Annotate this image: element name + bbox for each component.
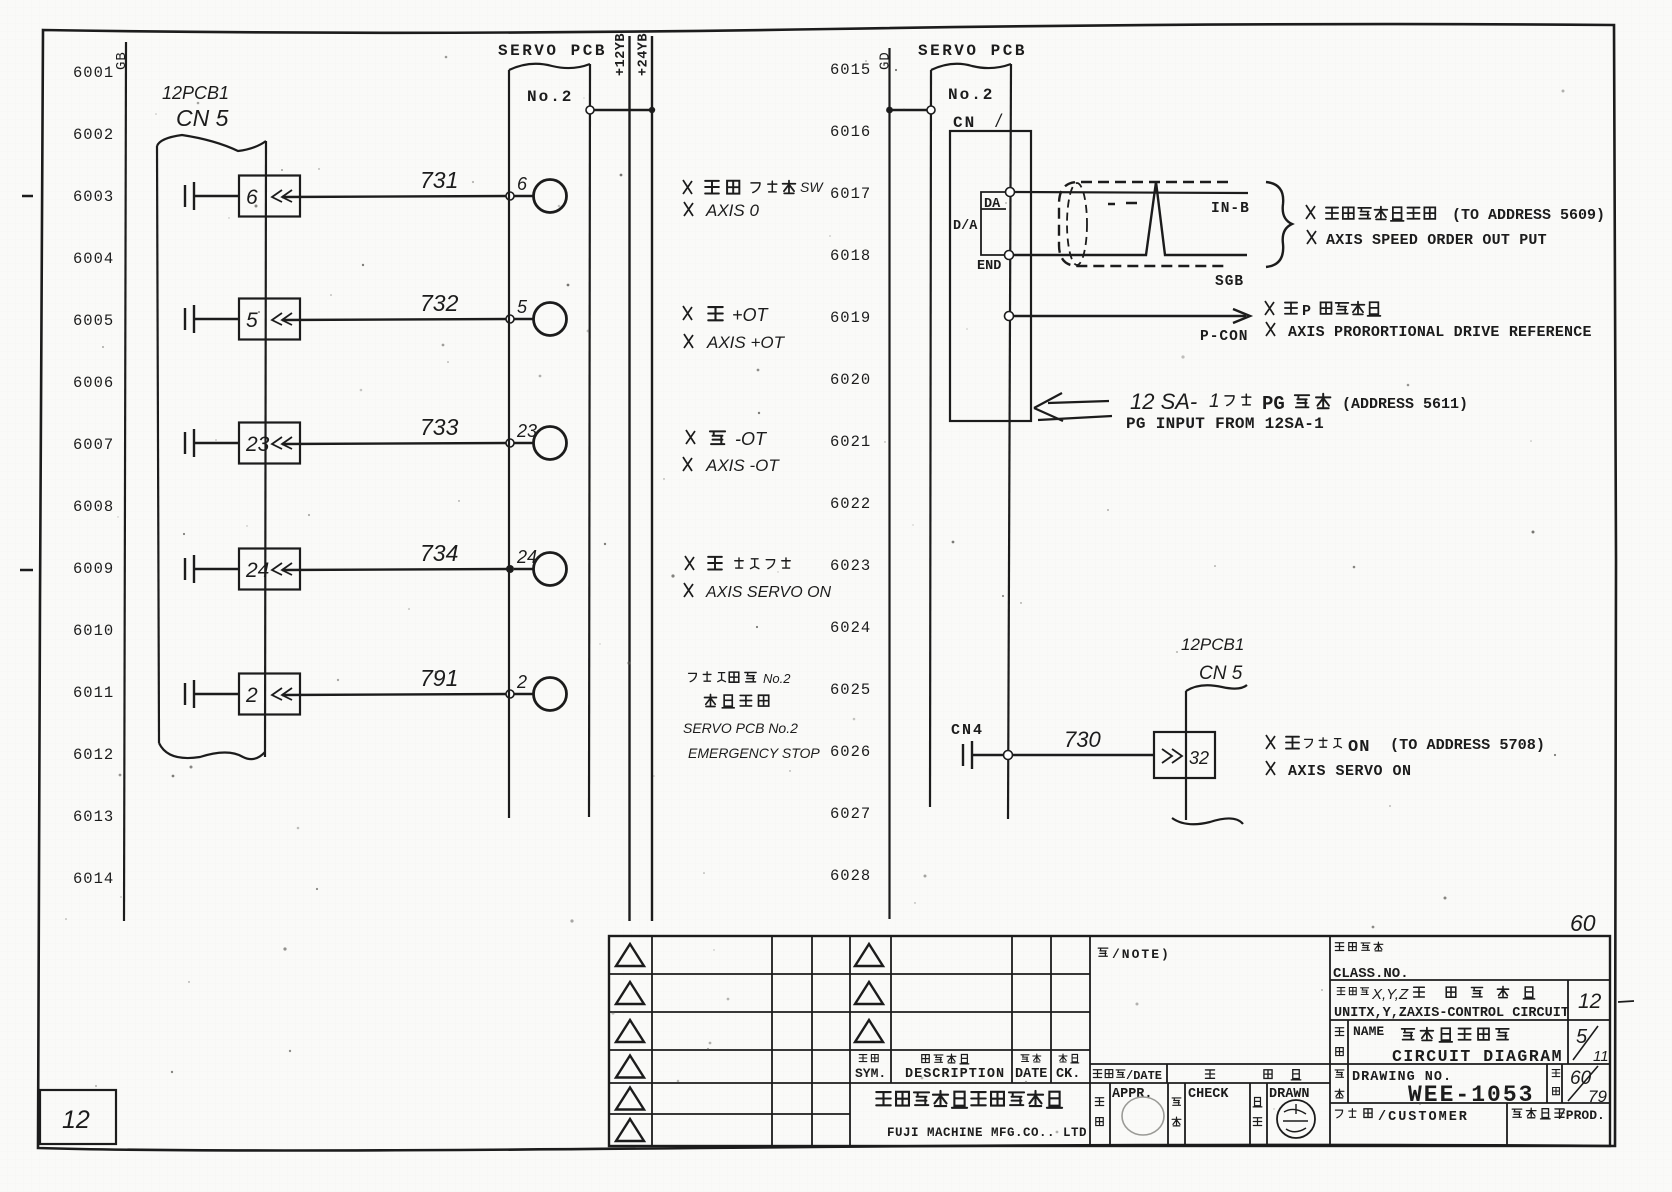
wire pin to lamp circle (514, 195, 534, 197)
svg-text:6026: 6026 (830, 743, 871, 761)
svg-text:/CUSTOMER: /CUSTOMER (1378, 1110, 1469, 1125)
svg-text:11: 11 (1593, 1048, 1609, 1065)
junction at SERVO PCB pin 23 (506, 439, 514, 447)
svg-text:6019: 6019 (830, 309, 871, 327)
name row: CIRCUIT DIAGRAM (1330, 1063, 1610, 1065)
svg-text:No.2: No.2 (948, 86, 994, 104)
svg-text:DRAWN: DRAWN (1269, 1087, 1310, 1102)
SERVO PCB No.2 (left) outline (509, 64, 590, 70)
svg-text:79: 79 (1588, 1087, 1607, 1106)
pin DA (1006, 188, 1015, 197)
annotation: X AXIS -OT (683, 456, 780, 475)
svg-text:/NOTE): /NOTE) (1112, 947, 1171, 962)
svg-text:791: 791 (420, 665, 458, 691)
svg-text:6007: 6007 (73, 436, 114, 454)
margin registration marks (20, 196, 33, 570)
annotation: X axis servo ON (TO ADDRESS 5708) (1266, 735, 1545, 757)
svg-text:CN4: CN4 (951, 722, 984, 739)
terminal box 32 (1154, 732, 1215, 778)
svg-text:P: P (1302, 303, 1311, 320)
svg-text:6021: 6021 (830, 433, 871, 451)
svg-text:D/A: D/A (953, 219, 978, 234)
svg-text:733: 733 (420, 414, 459, 440)
+12YB supply line (628, 36, 630, 921)
annotation: X AXIS SPEED ORDER OUT PUT (1307, 230, 1547, 249)
svg-text:GB: GB (114, 51, 130, 70)
svg-text:730: 730 (1064, 727, 1101, 752)
wire P-CON with arrow (1005, 312, 1014, 321)
svg-text:6018: 6018 (830, 247, 871, 265)
D/A bracket (981, 192, 1006, 255)
bus GD vertical line (888, 48, 890, 919)
wire pin to lamp circle (514, 442, 534, 444)
wire pin to lamp circle (514, 318, 534, 320)
wire END / SGB with pulse (1013, 182, 1247, 255)
svg-text:6025: 6025 (830, 681, 871, 699)
svg-text:SERVO PCB No.2: SERVO PCB No.2 (683, 720, 798, 736)
svg-text:No.2: No.2 (527, 88, 573, 106)
annotation: X axis speed order output (TO ADDRESS 5609) (1306, 205, 1605, 224)
svg-text:IN-B: IN-B (1211, 201, 1250, 217)
svg-text:AXIS PRORORTIONAL DRIVE REFER: AXIS PRORORTIONAL DRIVE REFERENCE (1288, 324, 1592, 341)
SERVO PCB No.2 (right) outline (931, 64, 1011, 70)
svg-text:AXIS SERVO ON: AXIS SERVO ON (705, 584, 832, 601)
svg-text:2: 2 (245, 684, 258, 707)
svg-text:1: 1 (1209, 391, 1220, 412)
junction at SERVO PCB pin 24 (506, 565, 514, 573)
class no row (1329, 936, 1331, 1146)
svg-text:/PROD.: /PROD. (1558, 1108, 1605, 1123)
annotation: X axis zero set SW (683, 179, 824, 195)
svg-text:6020: 6020 (830, 371, 871, 389)
svg-text:END: END (977, 259, 1001, 274)
small dashes in cable (1108, 203, 1137, 204)
svg-text:734: 734 (420, 540, 458, 566)
capacitor contact row 733 (184, 432, 186, 454)
NOTE box (1098, 947, 1171, 962)
connector CN1 box (950, 131, 1031, 421)
annotation: X AXIS SERVO ON (right) (1266, 761, 1412, 780)
svg-text:12 SA-: 12 SA- (1130, 389, 1197, 414)
date row (1090, 1063, 1330, 1065)
wire pin to lamp circle (514, 568, 534, 570)
svg-text:WEE-1053: WEE-1053 (1408, 1082, 1534, 1108)
svg-text:60: 60 (1570, 910, 1596, 936)
wire pin to lamp circle (514, 693, 534, 695)
svg-text:SERVO PCB: SERVO PCB (918, 42, 1027, 60)
arrow chevrons in box 5 (272, 313, 292, 325)
svg-text:6003: 6003 (73, 188, 114, 206)
curly brace (1266, 182, 1292, 267)
lamp circle row 734 (534, 553, 567, 586)
svg-text:DATE: DATE (1015, 1067, 1047, 1082)
right line-number column 6015-6028 (830, 61, 871, 885)
wire contact to box 6 (194, 195, 239, 197)
junction on PCB line (1004, 751, 1013, 760)
header SYM / DESCRIPTION / DATE / CK (859, 1055, 867, 1062)
svg-text:SW: SW (800, 179, 824, 195)
svg-text:6004: 6004 (73, 250, 114, 268)
svg-text:6009: 6009 (73, 560, 114, 578)
wire GD to PCB (890, 109, 932, 111)
svg-text:6001: 6001 (73, 64, 114, 82)
revision triangles (616, 944, 644, 966)
svg-text:UNITX,Y,ZAXIS-CONTROL CIRCUIT: UNITX,Y,ZAXIS-CONTROL CIRCUIT (1334, 1006, 1569, 1021)
svg-text:6011: 6011 (73, 684, 114, 702)
svg-text:CN 5: CN 5 (1199, 663, 1243, 684)
svg-text:/DATE: /DATE (1126, 1069, 1162, 1083)
svg-text:12PCB1: 12PCB1 (1181, 635, 1244, 654)
svg-text:CLASS.NO.: CLASS.NO. (1333, 966, 1409, 982)
svg-text:6028: 6028 (830, 867, 871, 885)
junction at SERVO PCB pin 2 (506, 690, 514, 698)
svg-text:PG: PG (1262, 393, 1285, 415)
svg-text:X,Y,Z: X,Y,Z (1371, 986, 1409, 1003)
svg-text:12PCB1: 12PCB1 (162, 83, 229, 103)
svg-text:6005: 6005 (73, 312, 114, 330)
drawing no row: WEE-1053 (1330, 1102, 1610, 1104)
svg-text:12: 12 (1578, 990, 1602, 1013)
svg-text:6010: 6010 (73, 622, 114, 640)
svg-text:+24YB: +24YB (637, 33, 652, 76)
svg-text:SGB: SGB (1215, 274, 1244, 290)
wire contact to box 23 (194, 442, 239, 444)
title block grid (609, 936, 1610, 1146)
annotation: X AXIS 0 (684, 201, 759, 220)
terminal box 5 (239, 299, 300, 340)
approval row APPR/CHECK/DRAWN (1109, 1083, 1111, 1146)
terminal box 6 (239, 176, 300, 217)
svg-text:6006: 6006 (73, 374, 114, 392)
svg-text:NAME: NAME (1353, 1024, 1384, 1039)
svg-text:CN 5: CN 5 (176, 105, 229, 131)
svg-text:6012: 6012 (73, 746, 114, 764)
capacitor contact CN4 (962, 744, 964, 766)
shielded cable (dashed) (1059, 182, 1228, 266)
customer row (1506, 1103, 1508, 1146)
arrow chevrons in box 24 (272, 563, 292, 575)
left line-number column 6001-6014 (73, 64, 114, 888)
wire 731 (282, 196, 510, 197)
lamp circle row 731 (534, 180, 567, 213)
capacitor contact row 731 (184, 185, 186, 207)
lamp circle row 791 (534, 678, 567, 711)
connector 12PCB1 CN5 (right, torn line) (1185, 691, 1187, 820)
svg-text:AXIS +OT: AXIS +OT (706, 333, 786, 352)
sheet number box (bottom left) (40, 1090, 116, 1144)
wire PCB to +24YB (590, 109, 652, 111)
PG input arrow (1034, 393, 1112, 421)
junction at SERVO PCB pin 6 (506, 192, 514, 200)
annotation: X AXIS SERVO ON (684, 583, 832, 601)
annotation: X axis -OT (686, 429, 768, 449)
svg-text:AXIS -OT: AXIS -OT (705, 456, 780, 475)
terminal box 23 (239, 423, 300, 464)
svg-text:6015: 6015 (830, 61, 871, 79)
svg-text:6014: 6014 (73, 870, 114, 888)
svg-text:AXIS 0: AXIS 0 (705, 201, 759, 220)
annotation: X axis interlock (685, 556, 790, 570)
svg-text:6013: 6013 (73, 808, 114, 826)
capacitor contact row 732 (184, 308, 186, 330)
svg-text:ON: ON (1348, 738, 1370, 757)
svg-text:23: 23 (245, 433, 270, 456)
unit row: X,Y,Z axis control circuit (1330, 1019, 1610, 1021)
arrow chevrons in box 23 (272, 437, 292, 449)
svg-text:12: 12 (62, 1106, 90, 1134)
company name Fuji Machine MFG (876, 1091, 1087, 1140)
svg-text:CN: CN (953, 114, 976, 132)
svg-text:2: 2 (516, 672, 527, 692)
svg-text:DESCRIPTION: DESCRIPTION (905, 1067, 1005, 1082)
annotation: X axis P operation order (1265, 301, 1380, 320)
svg-text:CHECK: CHECK (1188, 1087, 1229, 1102)
connector 12PCB1 CN5 (left container, torn edges) (157, 135, 266, 151)
svg-text:5: 5 (1576, 1026, 1588, 1048)
svg-text:CIRCUIT DIAGRAM: CIRCUIT DIAGRAM (1392, 1047, 1563, 1066)
annotation: X AXIS +OT (684, 333, 786, 352)
svg-text:CK.: CK. (1056, 1067, 1080, 1082)
svg-text:(TO ADDRESS 5708): (TO ADDRESS 5708) (1390, 736, 1545, 754)
svg-text:6024: 6024 (830, 619, 871, 637)
+24YB supply line (651, 36, 653, 921)
wire 734 (282, 569, 510, 570)
svg-text:5: 5 (246, 309, 258, 332)
svg-text:6016: 6016 (830, 123, 871, 141)
svg-text:+OT: +OT (732, 305, 770, 325)
svg-text:6023: 6023 (830, 557, 871, 575)
svg-text:EMERGENCY STOP: EMERGENCY STOP (688, 745, 820, 761)
wire contact to box 24 (194, 568, 239, 570)
svg-text:GD: GD (878, 51, 894, 70)
lamp circle row 733 (534, 427, 567, 460)
svg-text:5: 5 (517, 297, 528, 317)
annotation: X AXIS PRORORTIONAL DRIVE REFERENCE (1266, 322, 1592, 341)
svg-text:SERVO PCB: SERVO PCB (498, 42, 607, 60)
wire contact to box 5 (194, 318, 239, 320)
wire 730 (972, 754, 1154, 756)
svg-text:6008: 6008 (73, 498, 114, 516)
capacitor contact row 791 (184, 683, 186, 705)
svg-text:6017: 6017 (830, 185, 871, 203)
svg-text:6002: 6002 (73, 126, 114, 144)
terminal box 24 (239, 549, 300, 590)
arrow chevrons in box 6 (272, 190, 292, 202)
svg-text:No.2: No.2 (763, 671, 791, 686)
wire contact to box 2 (194, 693, 239, 695)
svg-text:(ADDRESS 5611): (ADDRESS 5611) (1342, 396, 1468, 413)
annotation: 12 SA-1 yori PG input (ADDRESS 5611) (1130, 389, 1468, 415)
capacitor contact row 734 (184, 558, 186, 580)
pin END (1005, 251, 1014, 260)
arrow chevrons in box 2 (272, 688, 292, 700)
svg-text:24: 24 (245, 559, 269, 582)
svg-text:+12YB: +12YB (614, 33, 629, 76)
svg-text:6027: 6027 (830, 805, 871, 823)
annotation: X axis +OT (683, 305, 770, 325)
svg-text:AXIS SERVO ON: AXIS SERVO ON (1288, 763, 1412, 780)
svg-text:AXIS SPEED ORDER OUT PUT: AXIS SPEED ORDER OUT PUT (1326, 232, 1547, 249)
svg-text:732: 732 (420, 290, 459, 316)
svg-text:PG INPUT FROM 12SA-1: PG INPUT FROM 12SA-1 (1126, 415, 1324, 433)
wire 732 (282, 319, 510, 320)
svg-text:P-CON: P-CON (1200, 329, 1249, 345)
wire 791 (282, 694, 510, 695)
svg-text:-OT: -OT (735, 429, 768, 449)
lamp circle row 732 (534, 303, 567, 336)
terminal box 2 (239, 674, 300, 715)
svg-text:SYM.: SYM. (855, 1066, 886, 1081)
svg-text:(TO ADDRESS 5609): (TO ADDRESS 5609) (1452, 207, 1605, 224)
junction at SERVO PCB pin 5 (506, 315, 514, 323)
annotation: servo alarm No.2 / emergency stop (689, 671, 792, 708)
svg-text:6022: 6022 (830, 495, 871, 513)
wire 733 (282, 443, 510, 444)
svg-text:32: 32 (1189, 748, 1209, 768)
svg-text:731: 731 (420, 167, 458, 193)
svg-text:6: 6 (517, 174, 528, 194)
wire DA / IN-B (1014, 192, 1248, 193)
bus GB vertical line (124, 42, 126, 921)
